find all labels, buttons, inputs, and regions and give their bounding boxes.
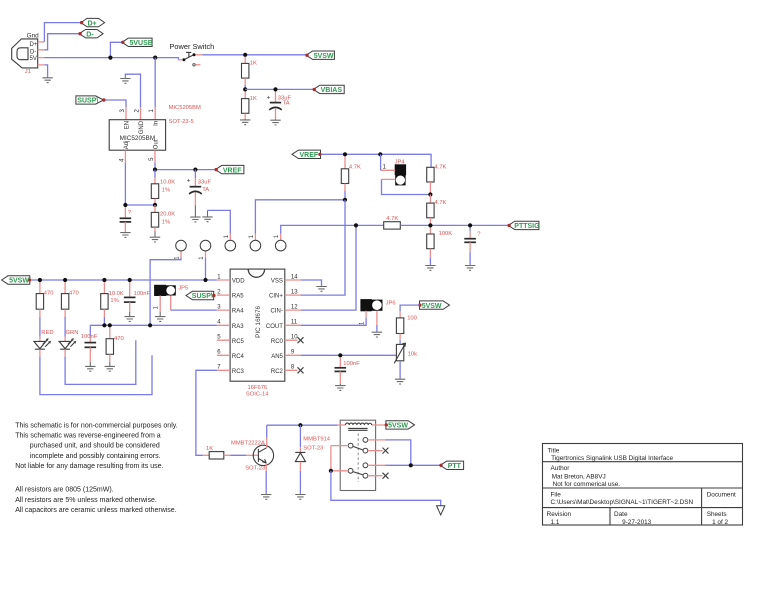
svg-text:100nF: 100nF [343, 361, 360, 367]
wire J1 D+ to flag [44, 23, 81, 42]
svg-text:RC2: RC2 [271, 369, 284, 375]
wire J1 D- to flag [44, 34, 79, 50]
svg-text:Adj: Adj [124, 141, 130, 150]
resistor 470 (GRN led) [61, 282, 78, 336]
LED RED [34, 330, 152, 394]
ground below ? cap [120, 232, 130, 238]
wire divider mid rail [125, 204, 155, 206]
capacitor ? (Adj bypass) [120, 207, 132, 232]
net flag 5VSW (left rail) [2, 276, 31, 285]
no-connect X on RC0 [298, 337, 304, 343]
svg-text:MIC5205BM: MIC5205BM [169, 105, 201, 111]
svg-text:C:\Users\Mat\Desktop\SIGNAL~1\: C:\Users\Mat\Desktop\SIGNAL~1\TIGERT~2.D… [551, 499, 694, 506]
J1 pin stubs [38, 42, 45, 65]
svg-text:470: 470 [114, 336, 124, 342]
no-connect X on RC2 [298, 367, 304, 373]
svg-text:5VSW: 5VSW [314, 53, 334, 60]
ground below 1K [240, 119, 250, 125]
capacitor 33uF TA (VREF) [187, 170, 212, 206]
svg-text:AN5: AN5 [271, 354, 283, 360]
svg-text:VREF: VREF [223, 167, 242, 174]
svg-text:4.7K: 4.7K [435, 200, 447, 206]
svg-text:Date: Date [614, 511, 628, 518]
ground at VSS [316, 286, 326, 292]
IC U2 PIC 16f676 [217, 269, 301, 397]
svg-text:VDD: VDD [232, 279, 245, 285]
connector J1 (USB) [12, 33, 39, 76]
ground below D1 [295, 494, 305, 500]
resistor 4.7K (right bottom) [427, 195, 447, 226]
node junction ? cap top [468, 223, 472, 227]
svg-text:10.0K: 10.0K [109, 291, 124, 297]
ground below JP6 [372, 331, 382, 337]
net flag VREF (regulator) [215, 165, 244, 174]
off-page connector arrow [437, 506, 445, 515]
node junction 4.7K left top [343, 152, 347, 156]
svg-text:incomplete and possibly contai: incomplete and possibly containing error… [30, 453, 161, 460]
node junction circle4 tap [343, 198, 347, 202]
svg-text:5VSW: 5VSW [422, 303, 442, 310]
svg-text:10.0K: 10.0K [160, 179, 175, 185]
svg-text:Not liable for any damage resu: Not liable for any damage resulting from… [15, 463, 163, 470]
svg-text:470: 470 [69, 291, 79, 297]
node junction JP4 branch [378, 152, 382, 156]
wire COUT to JP6 [301, 318, 366, 325]
wire GND pin to ground [125, 74, 140, 107]
svg-text:This schematic is for non-comm: This schematic is for non-commercial pur… [15, 422, 178, 429]
resistor 100 [396, 311, 416, 344]
net flag D+ [80, 18, 105, 27]
wire RC3 to base resistor [196, 370, 217, 455]
jack pin 4 circle (pad 4) [249, 234, 261, 251]
svg-text:All capacitors are ceramic unl: All capacitors are ceramic unless marked… [15, 507, 177, 514]
wire CIN+ riser [301, 200, 345, 295]
node junction 100K top [428, 223, 432, 227]
svg-text:5V: 5V [30, 56, 37, 62]
diode D1 MMBT914 [295, 425, 331, 493]
svg-text:Revision: Revision [547, 511, 572, 518]
wire VREF rail [155, 169, 215, 171]
svg-text:Out: Out [153, 139, 159, 149]
wire relay common to off-page [331, 471, 441, 506]
net flag D- [78, 30, 103, 39]
jumper JP5 [154, 285, 189, 312]
capacitor 33uF TA (VBIAS) [267, 92, 292, 120]
svg-text:VSS: VSS [271, 279, 283, 285]
svg-text:9-27-2013: 9-27-2013 [622, 519, 652, 526]
jack pin 2 circle (pad 2) [199, 240, 211, 259]
svg-text:Tigertronics Signalink USB Dig: Tigertronics Signalink USB Digital Inter… [551, 455, 673, 462]
svg-text:14: 14 [291, 274, 298, 280]
svg-text:10k: 10k [408, 351, 417, 357]
svg-text:20.0K: 20.0K [160, 212, 175, 218]
svg-text:D+: D+ [88, 20, 97, 27]
resistor 4.7K (PTTSIG series) [384, 216, 509, 229]
wire J1 Gnd down [44, 65, 47, 77]
svg-text:VREF: VREF [300, 152, 319, 159]
wire pad4 to VREF divider [255, 200, 345, 234]
svg-text:13: 13 [291, 289, 298, 295]
wire switched 5V rail [202, 54, 306, 56]
node junction 33uF VREF [193, 168, 197, 172]
LED GRN [59, 330, 136, 384]
svg-text:D-: D- [86, 31, 94, 38]
svg-text:RC5: RC5 [232, 339, 245, 345]
svg-text:PTTSIG: PTTSIG [514, 223, 540, 230]
node junction 100nF AN5 [338, 353, 342, 357]
node junction 470 grn [63, 278, 67, 282]
wire Adj down to divider [124, 162, 126, 205]
wire jack pin3 to ground [208, 210, 231, 233]
ground below VREF 33uF [190, 206, 200, 222]
wire JP5 to RA4 [171, 309, 217, 311]
svg-text:SOT-23-5: SOT-23-5 [169, 119, 194, 125]
ground below pot [395, 378, 405, 384]
node junction diode top [298, 423, 302, 427]
jack pin 1 circle (pad 1) [175, 240, 187, 259]
svg-text:D+: D+ [30, 42, 38, 48]
ground below JP5 [155, 312, 165, 322]
ground below J1 [42, 77, 52, 83]
svg-text:MMBT914: MMBT914 [303, 437, 331, 443]
svg-text:JP5: JP5 [178, 285, 188, 291]
svg-text:In: In [154, 121, 160, 126]
svg-text:Author: Author [551, 465, 571, 472]
svg-text:All resistors are 5% unless ma: All resistors are 5% unless marked other… [15, 497, 157, 504]
svg-text:TA: TA [283, 101, 290, 107]
wire RA3 bus [90, 324, 217, 326]
ground (MIC GND) [120, 78, 130, 84]
wire JP4 pin1 up to rail [380, 154, 382, 170]
wire 5VSW rail to VDD [31, 279, 217, 281]
svg-text:CIN-: CIN- [271, 309, 283, 315]
node junction 4.7K mid [428, 192, 432, 196]
svg-text:+: + [267, 94, 271, 101]
ground below 20.0K [150, 231, 160, 242]
node junction VBIAS [243, 87, 247, 91]
svg-text:SOT-23: SOT-23 [303, 446, 323, 452]
node junction at 1K top [243, 53, 247, 57]
net flag 5VSW top [305, 51, 334, 60]
svg-text:D-: D- [30, 49, 36, 55]
ground (speaker jack sleeve) [202, 210, 212, 221]
net flag 5VUSB [121, 38, 153, 47]
svg-text:PTT: PTT [448, 463, 462, 470]
wire JP4 pin2 to 4.7K mid node [382, 179, 431, 194]
svg-text:33uF: 33uF [198, 180, 212, 186]
resistor 10.0K 1% (Adj divider top) [151, 170, 175, 205]
capacitor ? (PTTSIG filter) [464, 228, 481, 265]
svg-text:5VUSB: 5VUSB [130, 40, 153, 47]
svg-text:100K: 100K [439, 231, 453, 237]
wire VREF bias rail [322, 154, 432, 167]
node junction 100nF [128, 278, 132, 282]
wire In pin from 5V rail [154, 58, 156, 108]
svg-text:RC4: RC4 [232, 354, 245, 360]
node junction Out/VREF [153, 168, 157, 172]
node junction 5VUSB tap [108, 56, 112, 60]
node junction divider mid [153, 203, 157, 207]
jumper JP4 [381, 160, 406, 186]
svg-text:COUT: COUT [266, 324, 283, 330]
net flag SUSP\ (to MIC EN) [76, 96, 106, 105]
node junction 33uF VBIAS [273, 87, 277, 91]
no-connect X relay NC1 [383, 448, 389, 454]
svg-text:purchased unit, and should be: purchased unit, and should be considered [30, 443, 160, 450]
net flag VREF (bias network) [292, 150, 322, 159]
svg-text:1%: 1% [162, 220, 170, 226]
title block [543, 444, 743, 527]
ground below 100K [425, 265, 435, 271]
svg-text:12: 12 [291, 304, 298, 310]
svg-text:Document: Document [707, 491, 736, 498]
svg-text:1.1: 1.1 [551, 519, 560, 526]
svg-text:GRN: GRN [66, 330, 79, 336]
capacitor 100nF (AN5) [335, 357, 361, 384]
svg-text:1K: 1K [250, 96, 257, 102]
net flag 5VSW (relay coil) [385, 421, 415, 430]
net flag SUSP\ (RA5) [186, 291, 216, 300]
svg-text:1 of 2: 1 of 2 [712, 519, 728, 526]
svg-text:CIN+: CIN+ [269, 294, 283, 300]
svg-text:RA3: RA3 [232, 324, 244, 330]
jack pin 5 circle (pad 5) [274, 234, 286, 251]
node junction CIN- on bus [354, 223, 358, 227]
svg-text:Title: Title [548, 447, 560, 454]
node junction pad2 drop [203, 278, 207, 282]
wire pad2 to VDD rail [205, 258, 207, 280]
wire VBIAS rail [245, 88, 313, 90]
svg-text:Power Switch: Power Switch [170, 42, 215, 51]
disclaimer text block [15, 422, 178, 514]
svg-text:1%: 1% [110, 298, 118, 304]
node junction MIC In tap [153, 56, 157, 60]
jack pin 3 circle (pad 3) [224, 234, 236, 251]
ground below 100nF RA3 [85, 362, 95, 372]
svg-text:470: 470 [44, 291, 54, 297]
svg-text:PIC 16f676: PIC 16f676 [255, 305, 262, 337]
jumper JP6 [360, 300, 396, 332]
svg-text:4.7K: 4.7K [349, 164, 361, 170]
svg-text:RA5: RA5 [232, 294, 244, 300]
power switch S1 [170, 42, 215, 66]
resistor 470 (RA3 series) [106, 327, 124, 361]
svg-text:1K: 1K [250, 61, 257, 67]
net flag PTT [439, 461, 463, 470]
resistor 470 (RED led) [36, 282, 53, 336]
svg-text:TA: TA [202, 187, 209, 193]
net flag 5VSW (volume) [418, 301, 449, 310]
resistor 20.0K 1% (Adj divider bottom) [151, 205, 175, 231]
node junction PTT [409, 463, 413, 467]
node junction relay common [329, 469, 333, 473]
svg-text:+: + [187, 178, 191, 185]
resistor 1K (base) [203, 446, 231, 459]
resistor 4.7K (left bias) [341, 156, 361, 199]
svg-text:SOT-23: SOT-23 [245, 466, 265, 472]
node junction pad1 drop [148, 323, 152, 327]
svg-text:JP6: JP6 [386, 301, 396, 307]
relay K1 [331, 420, 386, 490]
resistor 1K (upper divider) [242, 57, 258, 90]
net flag PTTSIG [507, 221, 540, 230]
wire Out to VREF node [154, 162, 156, 169]
svg-text:16F676: 16F676 [248, 385, 268, 391]
wire collector rail [267, 424, 338, 426]
svg-text:1%: 1% [162, 188, 170, 194]
wire J1 5V rail [44, 58, 178, 60]
ground below 33uF [270, 119, 280, 125]
svg-text:Gnd: Gnd [27, 33, 40, 40]
resistor 1K (lower divider) [242, 92, 258, 120]
svg-text:100: 100 [407, 316, 417, 322]
resistor 4.7K (right top) [427, 164, 447, 194]
ground below 100nF [125, 312, 135, 322]
svg-text:5VSW: 5VSW [388, 423, 408, 430]
wire relay contact to PTT [385, 440, 440, 465]
wire AN5 to pot [301, 354, 396, 356]
svg-text:SUSP\: SUSP\ [77, 98, 98, 105]
svg-text:Sheets: Sheets [707, 511, 727, 518]
wire SUSP to EN pin [106, 100, 127, 107]
wire pad1 to RA3 bus [150, 258, 181, 326]
transistor Q1 MMBT2222A [231, 425, 274, 493]
svg-text:SOIC-14: SOIC-14 [246, 391, 269, 397]
svg-text:This schematic was reverse-eng: This schematic was reverse-engineered fr… [15, 433, 161, 440]
node junction 470 red [38, 278, 42, 282]
svg-text:SUSP\: SUSP\ [192, 293, 213, 300]
capacitor 100nF (5VSW bypass) [124, 282, 151, 312]
potentiometer 10k [394, 343, 417, 378]
svg-text:VBIAS: VBIAS [321, 87, 343, 94]
wire VSS to ground [301, 280, 322, 286]
node junction 10.0K bottom [102, 323, 106, 327]
ground below 470 RA3 [105, 362, 115, 372]
svg-text:5VSW: 5VSW [9, 278, 29, 285]
svg-text:100nF: 100nF [134, 291, 151, 297]
svg-text:EN: EN [124, 121, 130, 129]
IC U1 MIC5205BM [109, 105, 201, 162]
no-connect X relay NC2 [383, 473, 389, 479]
node junction Adj/cap [123, 203, 127, 207]
wire base [230, 454, 246, 456]
svg-text:4.7K: 4.7K [435, 164, 447, 170]
svg-text:J1: J1 [25, 69, 31, 75]
node junction 10.0K [102, 278, 106, 282]
ground below 100nF AN5 [335, 384, 345, 390]
svg-text:File: File [551, 491, 562, 498]
svg-text:Not for commerical use.: Not for commerical use. [553, 481, 621, 488]
svg-text:RED: RED [41, 330, 53, 336]
svg-text:All resistors are 0805 (125mW): All resistors are 0805 (125mW). [15, 487, 113, 494]
svg-text:100nF: 100nF [81, 334, 98, 340]
wire 5VUSB tap [110, 42, 122, 57]
svg-text:Mat Breton, AB8VJ: Mat Breton, AB8VJ [552, 474, 606, 481]
ground below ? cap [465, 265, 475, 271]
capacitor 100nF (RA3 filter) [81, 325, 98, 361]
svg-text:11: 11 [291, 320, 298, 326]
net flag VBIAS [313, 85, 345, 94]
wire pad5 to PTTSIG bus [281, 225, 384, 233]
wire CIN- riser [301, 225, 356, 310]
ground below Q1 [261, 494, 271, 500]
svg-text:1K: 1K [206, 446, 213, 452]
resistor 10.0K 1% (pull-up) [101, 282, 124, 325]
svg-text:RA4: RA4 [232, 309, 244, 315]
node junction 470 cout top [108, 323, 112, 327]
svg-text:RC0: RC0 [271, 339, 284, 345]
svg-text:GND: GND [139, 120, 145, 134]
resistor 100K [427, 228, 453, 265]
svg-text:RC3: RC3 [232, 369, 245, 375]
wire 5VSW to 100 resistor [400, 305, 419, 311]
svg-text:10: 10 [291, 335, 298, 341]
